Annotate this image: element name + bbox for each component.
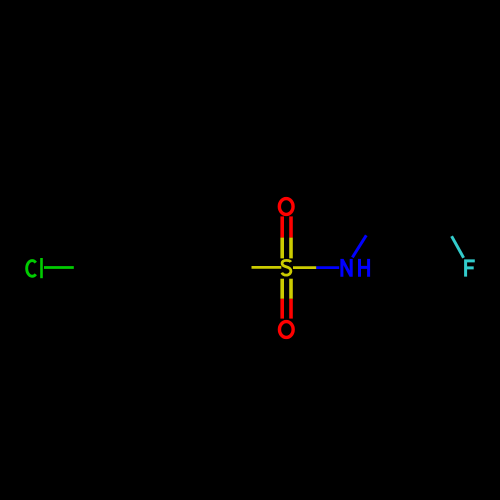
atom label N xyxy=(342,259,351,277)
atom label H xyxy=(360,259,369,277)
bond C6-F (visible cyan half, diagonal) xyxy=(452,236,464,258)
bond Cl-C1 (visible green half) xyxy=(44,266,74,269)
atom label O bottom xyxy=(279,322,293,338)
atom label F xyxy=(464,260,475,277)
bond S-N (blue half) xyxy=(316,266,339,269)
S=O top double bond line 2 (yellow half) xyxy=(289,238,293,259)
S=O bottom double bond line 2 (yellow half) xyxy=(289,279,293,299)
atom label Cl (letter l) xyxy=(40,258,43,278)
atom label O top xyxy=(279,199,293,215)
bond C4-S (visible yellow half) xyxy=(252,266,282,269)
S=O top double bond line 1 (yellow half) xyxy=(280,238,284,259)
bond N-C5 (visible blue half, diagonal) xyxy=(352,235,366,257)
S=O bottom double bond line 2 (red half) xyxy=(289,299,293,319)
S=O top double bond line 1 (red half) xyxy=(280,216,284,237)
S=O top double bond line 2 (red half) xyxy=(289,216,293,237)
S=O bottom double bond line 1 (yellow half) xyxy=(280,279,284,299)
S=O bottom double bond line 1 (red half) xyxy=(280,299,284,319)
atom label Cl (letter C) xyxy=(27,261,36,277)
atom label S xyxy=(282,260,291,275)
bond S-N (yellow half) xyxy=(293,266,316,269)
